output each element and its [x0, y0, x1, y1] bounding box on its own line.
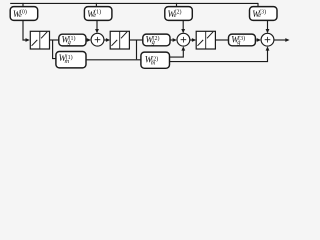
box We(3): [250, 7, 278, 21]
activation block S1: [30, 31, 49, 49]
wire: We3 down into sum3: [267, 20, 269, 29]
adder sum1: [91, 33, 104, 46]
box We(2): [165, 7, 193, 21]
box Wg(1): [59, 34, 86, 46]
activation block S2: [110, 31, 129, 49]
box Wm(2): [141, 52, 170, 68]
svg-text:(1): (1): [66, 54, 73, 61]
wire: act S2 to Wg2: [129, 39, 142, 41]
box We(0): [10, 7, 38, 21]
wire: We2 down into sum2: [182, 20, 184, 29]
wire: Wg2 to sum2 arrow: [170, 39, 173, 41]
wire: We1 down into sum1: [96, 20, 98, 29]
svg-text:(1): (1): [69, 35, 76, 42]
adder sum2: [177, 33, 190, 46]
svg-text:(0): (0): [20, 8, 27, 15]
box We(1): [84, 7, 112, 21]
wire: tick into We2: [176, 3, 178, 7]
wire: Wm2 upper output right then up into sum2: [170, 50, 184, 57]
wire: branch down into Wm2: [136, 40, 138, 59]
wire: output arrow: [274, 39, 286, 41]
wire: act S3 to Wg3: [215, 39, 228, 41]
wire: top input bus: [10, 2, 258, 4]
wire: We0 output down then right into act square S1: [23, 20, 26, 40]
svg-text:(3): (3): [259, 8, 266, 15]
svg-text:(2): (2): [151, 55, 158, 62]
wire: sum2 to act S3 arrow: [190, 39, 192, 41]
wire: Wg3 to sum3 arrow: [255, 39, 256, 41]
wire: tick into We1: [95, 3, 97, 7]
activation block S3: [196, 31, 215, 49]
wire: sum1 to act S2 arrow: [104, 39, 106, 41]
wire: act S1 to Wg1: [50, 39, 59, 41]
svg-text:(1): (1): [94, 8, 101, 15]
svg-text:(2): (2): [175, 8, 182, 15]
box Wg(2): [143, 34, 170, 46]
wire: Wm1 output across to Wm2: [86, 59, 141, 61]
wire: tick into We0: [22, 3, 24, 7]
wire: Wm2 lower output bus right then up into sum3: [170, 50, 268, 61]
wire: Wg1 to sum1 arrow: [86, 39, 87, 41]
box Wm(1): [56, 52, 86, 68]
svg-text:(2): (2): [153, 35, 160, 42]
box Wg(3): [229, 34, 256, 46]
svg-text:(3): (3): [238, 35, 245, 42]
adder sum3: [261, 33, 274, 46]
wire: branch down into Wm1: [53, 40, 56, 59]
wire: tick into We3: [257, 3, 259, 7]
